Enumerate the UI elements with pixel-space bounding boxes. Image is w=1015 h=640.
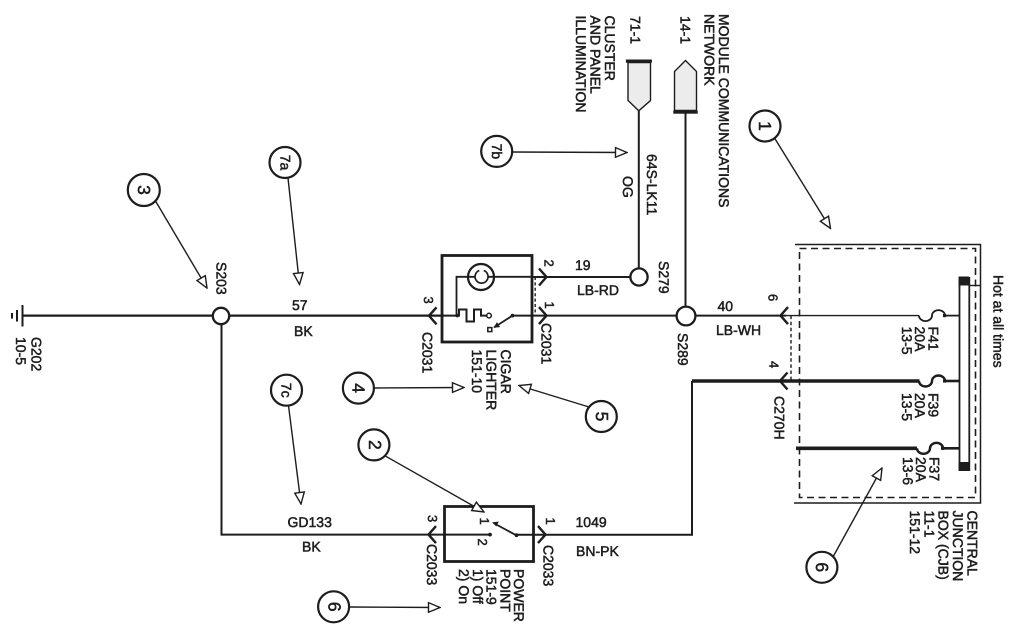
switch contact square bbox=[488, 328, 492, 332]
wire ground to S203 bbox=[23, 315, 214, 317]
svg-text:LB-RD: LB-RD bbox=[577, 282, 619, 298]
svg-text:Hot at all times: Hot at all times bbox=[991, 275, 1007, 368]
callout 2 leader bbox=[385, 456, 484, 512]
svg-text:3: 3 bbox=[425, 515, 440, 522]
svg-text:GD133: GD133 bbox=[288, 514, 333, 530]
callout 7c leader bbox=[289, 406, 302, 504]
svg-text:F3720A13-6: F3720A13-6 bbox=[900, 457, 943, 485]
callout 7b circle bbox=[481, 136, 512, 167]
wire GD133 BK S203 down and right to power point pin 3 bbox=[222, 324, 491, 535]
callout 5 circle bbox=[586, 401, 617, 432]
wire 40 LB-WH S289 to CJB pin 6 bbox=[695, 315, 786, 317]
svg-text:3: 3 bbox=[134, 185, 154, 195]
svg-text:BK: BK bbox=[302, 539, 321, 555]
pin 1 arrow C2033 bbox=[538, 526, 546, 543]
svg-text:6: 6 bbox=[324, 602, 344, 612]
busbar hot at all times bbox=[959, 277, 961, 471]
svg-text:3: 3 bbox=[421, 297, 436, 304]
CJB solid frame bbox=[794, 245, 981, 504]
svg-text:5: 5 bbox=[592, 412, 612, 422]
wire lamp to pin 2 / wire 19 to S279 bbox=[533, 276, 631, 278]
cigar lighter box bbox=[442, 256, 532, 343]
callout 7a circle bbox=[270, 147, 301, 178]
svg-text:71-1: 71-1 bbox=[628, 16, 644, 44]
callout 6 leader (CJB) bbox=[834, 468, 883, 556]
pin 4 arrow C270H bbox=[780, 373, 788, 390]
callout 7b leader bbox=[512, 151, 627, 154]
switch blade (cigar lighter) bbox=[494, 316, 513, 328]
ground G202 bbox=[12, 305, 23, 327]
svg-text:1: 1 bbox=[755, 121, 775, 131]
svg-text:S279: S279 bbox=[656, 261, 672, 294]
callout 4 leader bbox=[374, 387, 464, 390]
fuse F39 20A bbox=[919, 376, 945, 387]
svg-text:7b: 7b bbox=[489, 144, 505, 160]
svg-text:40: 40 bbox=[718, 298, 734, 314]
svg-text:14-1: 14-1 bbox=[678, 16, 694, 44]
svg-text:7c: 7c bbox=[279, 383, 295, 398]
pin 3 arrow C2033 bbox=[429, 526, 437, 543]
svg-text:1: 1 bbox=[477, 518, 492, 525]
callout 7c circle bbox=[271, 375, 302, 406]
wire 64S-LK11 OG S279 to 71-1 connector bbox=[638, 111, 640, 268]
pin 3 arrow C2031 bbox=[429, 307, 437, 324]
svg-text:BK: BK bbox=[294, 323, 313, 339]
svg-text:1049: 1049 bbox=[576, 514, 607, 530]
svg-text:57: 57 bbox=[292, 297, 308, 313]
svg-text:C270H: C270H bbox=[772, 396, 788, 440]
splice S203 bbox=[213, 308, 229, 324]
connector face C270H (thin dashed) bbox=[790, 316, 792, 381]
off-page connector 14-1 (module communications network) bbox=[675, 61, 697, 111]
pin 1 arrow C2031 bbox=[539, 307, 547, 324]
svg-text:4: 4 bbox=[767, 361, 782, 368]
wire power point pin 1 / wire 1049 BN-PK to CJB bbox=[517, 381, 693, 535]
svg-text:1: 1 bbox=[543, 518, 558, 525]
svg-text:F4120A13-5: F4120A13-5 bbox=[899, 327, 942, 355]
svg-text:7a: 7a bbox=[278, 155, 294, 171]
svg-text:C2031: C2031 bbox=[539, 323, 555, 364]
svg-text:BN-PK: BN-PK bbox=[576, 543, 619, 559]
connector face C2031 (dashed) bbox=[534, 277, 536, 316]
svg-text:LB-WH: LB-WH bbox=[716, 322, 761, 338]
switch contact (power point position 2) bbox=[488, 533, 492, 537]
svg-text:C2031: C2031 bbox=[420, 332, 436, 373]
splice S289 bbox=[677, 307, 696, 326]
callout 3 circle bbox=[128, 174, 160, 206]
svg-text:C2033: C2033 bbox=[541, 545, 557, 586]
callout 1 circle bbox=[750, 111, 781, 142]
busbar terminal top bbox=[959, 277, 969, 286]
svg-text:19: 19 bbox=[575, 257, 591, 273]
wire cigar lighter pin 1 to S289 bbox=[513, 315, 678, 317]
wire lamp leads bbox=[457, 277, 476, 316]
wire 57 BK S203 to cigar lighter pin 3 bbox=[229, 315, 445, 317]
svg-text:S289: S289 bbox=[675, 333, 691, 366]
wire 14-1 connector to S289 bbox=[685, 114, 687, 307]
pin 2 arrow C2031 bbox=[539, 269, 547, 286]
switch blade (power point) bbox=[494, 523, 517, 535]
callout 2 circle bbox=[358, 429, 389, 460]
callout 5 leader bbox=[519, 386, 589, 408]
callout 6 circle (CJB) bbox=[806, 552, 837, 583]
wire F41 to pin 6 bbox=[786, 315, 919, 317]
off-page connector 71-1 (cluster and panel illumination) bbox=[628, 63, 651, 111]
wire F37 feed bbox=[796, 446, 917, 450]
power point box bbox=[445, 507, 534, 562]
callout 4 circle bbox=[343, 373, 374, 404]
splice S279 bbox=[630, 268, 647, 285]
svg-text:C2033: C2033 bbox=[424, 544, 440, 585]
svg-text:6: 6 bbox=[812, 562, 832, 572]
callout 6 leader (power point) bbox=[349, 606, 440, 609]
fuse F37 20A bbox=[917, 443, 943, 454]
svg-text:64S-LK11: 64S-LK11 bbox=[644, 154, 660, 215]
callout 3 leader bbox=[156, 201, 208, 288]
callout 6 circle (power point) bbox=[318, 591, 349, 622]
element contact bbox=[487, 313, 492, 318]
svg-text:4: 4 bbox=[349, 383, 369, 393]
svg-text:S203: S203 bbox=[214, 262, 230, 295]
wire thick to CJB pin 4 C270H bbox=[692, 379, 920, 383]
svg-text:6: 6 bbox=[766, 294, 781, 301]
svg-text:1: 1 bbox=[542, 302, 557, 309]
busbar feed stub bbox=[969, 285, 981, 287]
callout 1 leader bbox=[775, 138, 831, 229]
fuse F41 20A bbox=[919, 310, 945, 321]
lamp (cigar lighter illumination) bbox=[468, 264, 494, 290]
heating element (cigar lighter) bbox=[444, 310, 487, 322]
svg-text:2: 2 bbox=[365, 440, 385, 450]
callout 7a leader bbox=[288, 178, 300, 285]
svg-text:OG: OG bbox=[620, 176, 636, 198]
svg-text:2: 2 bbox=[475, 539, 490, 546]
pin 6 arrow CJB bbox=[781, 307, 789, 324]
svg-text:F3920A13-5: F3920A13-5 bbox=[899, 393, 942, 421]
busbar terminal bottom bbox=[959, 462, 969, 471]
CJB dashed box bbox=[800, 249, 976, 498]
svg-text:2: 2 bbox=[542, 260, 557, 267]
